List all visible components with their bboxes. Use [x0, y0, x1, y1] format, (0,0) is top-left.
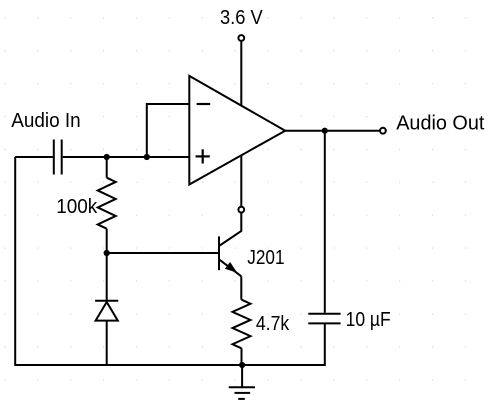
terminal: op-amp / Q1 gate node — [238, 207, 244, 213]
wire: op-amp output — [285, 130, 379, 132]
resistor R2 4.7k — [233, 300, 251, 365]
node: feedback junction — [144, 154, 150, 160]
capacitor C1 input coupling — [54, 140, 62, 175]
op-amp U1 — [189, 76, 285, 185]
wire: C1 to op-amp + input — [63, 156, 190, 158]
svg-text:4.7k: 4.7k — [256, 313, 290, 335]
wire: Audio In lead to C1 — [15, 156, 53, 158]
svg-text:3.6 V: 3.6 V — [220, 7, 263, 29]
transistor Q1 J201 — [219, 213, 241, 276]
node: ground junction — [239, 362, 245, 368]
wire: op-amp bottom to Q1 terminal — [240, 155, 242, 206]
wire: output node down to C2 — [324, 131, 326, 313]
terminal: 3.6 V supply — [238, 35, 244, 41]
capacitor C2 10uF — [308, 314, 340, 324]
terminal: Audio Out — [380, 128, 386, 134]
node: C1 / R1 junction — [104, 154, 110, 160]
wire: Q1 emitter to R2 — [240, 276, 242, 299]
wire: feedback from output node down to - input — [147, 104, 190, 157]
wire: base wire from R1/D1 node to Q1 base — [107, 252, 218, 254]
wire: 3.6 V supply lead into op-amp — [240, 41, 242, 105]
svg-text:J201: J201 — [247, 247, 284, 269]
resistor R1 100k — [98, 157, 116, 253]
ground symbol — [229, 365, 255, 399]
svg-text:Audio In: Audio In — [11, 110, 81, 132]
svg-text:Audio Out: Audio Out — [396, 113, 485, 135]
wire: ground loop (left rail, bottom rail, C2 bottom lead) — [15, 157, 325, 365]
node: output junction — [322, 128, 328, 134]
svg-text:10 µF: 10 µF — [346, 309, 391, 331]
svg-text:100k: 100k — [56, 196, 98, 218]
node: R1 / D1 / base junction — [104, 250, 110, 256]
diode D1 — [95, 253, 118, 365]
